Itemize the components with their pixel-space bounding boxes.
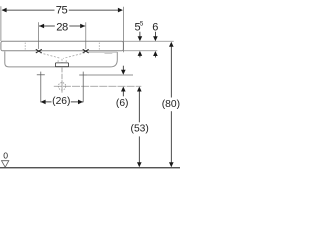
dim (53) up arrow	[137, 87, 142, 92]
dim 75 arrows	[2, 8, 7, 13]
dim (26) arrows	[41, 100, 46, 105]
drain axis dashed line to right	[54, 85, 142, 87]
drain outlet symbol circle-cross	[58, 80, 65, 92]
bowl underside outline	[5, 51, 118, 67]
svg-text:28: 28	[56, 22, 68, 34]
anchor axis line to right	[87, 74, 133, 76]
rim bottom extension line	[123, 50, 157, 52]
ext line 75 left	[0, 6, 2, 41]
dim (80) lower line	[170, 111, 172, 163]
svg-text:5: 5	[140, 20, 144, 27]
svg-text:(53): (53)	[131, 124, 149, 135]
dim (6) up arrow	[121, 87, 126, 92]
drain pipe centerline	[61, 67, 63, 81]
dashed diagonal right	[63, 53, 85, 59]
washbasin rim band	[1, 41, 124, 51]
tap hole X right	[83, 49, 89, 53]
svg-text:0: 0	[3, 151, 8, 161]
hidden bowl wall dotted left	[24, 43, 26, 51]
ext line 75 right	[122, 7, 124, 53]
svg-text:(26): (26)	[52, 96, 70, 107]
dim 5.5 down arrow	[139, 32, 141, 37]
dim 5.5 up arrow	[138, 51, 143, 56]
svg-text:75: 75	[56, 5, 68, 17]
dim (80) down arrow	[169, 162, 174, 167]
svg-text:(6): (6)	[116, 98, 129, 109]
line under rim right	[89, 51, 117, 53]
dashed diagonal left	[40, 53, 61, 59]
dim (53) down arrow	[137, 162, 142, 167]
rim top extension line	[123, 40, 173, 42]
datum triangle	[2, 161, 9, 168]
ext line 28 left	[38, 22, 40, 49]
ext line 28 right	[85, 22, 87, 49]
dim 6 up arrow	[153, 51, 158, 56]
dashed tick right of drain	[65, 60, 67, 63]
anchor cross right	[79, 72, 87, 103]
hidden bowl wall dotted right	[98, 43, 100, 51]
dim 75 line	[2, 9, 122, 11]
dim (53) lower line	[138, 136, 140, 163]
dim 28 line	[39, 25, 85, 27]
drain fitting rect	[55, 63, 68, 67]
dim (26) line	[41, 101, 83, 103]
dashed tick left of drain	[57, 60, 59, 63]
anchor cross left	[37, 72, 45, 103]
floor line	[0, 167, 180, 169]
faint short line right	[105, 53, 113, 55]
dim (6) down arrow	[122, 66, 124, 71]
dashed centerline above drain	[61, 59, 63, 63]
dim 6 down arrow	[154, 32, 156, 37]
dim 28 arrows	[39, 24, 44, 29]
dim (80) up arrow	[169, 42, 174, 47]
svg-text:(80): (80)	[162, 99, 180, 110]
tap hole X left	[36, 49, 42, 53]
svg-text:6: 6	[152, 21, 158, 33]
